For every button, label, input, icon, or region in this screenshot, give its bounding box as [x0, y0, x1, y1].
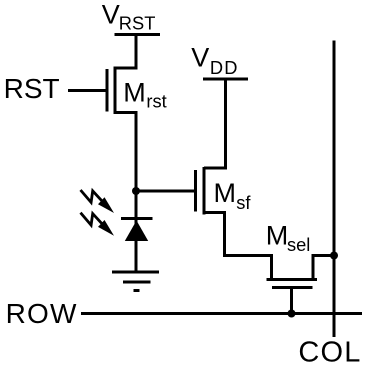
- svg-text:rst: rst: [146, 90, 166, 111]
- svg-text:sf: sf: [236, 192, 251, 213]
- svg-text:DD: DD: [210, 57, 239, 78]
- svg-text:RST: RST: [4, 73, 60, 104]
- svg-text:M: M: [266, 220, 289, 250]
- svg-text:V: V: [102, 0, 120, 30]
- svg-text:ROW: ROW: [6, 298, 78, 329]
- svg-text:RST: RST: [119, 13, 156, 34]
- svg-text:M: M: [123, 78, 146, 108]
- svg-text:M: M: [214, 178, 237, 208]
- svg-text:COL: COL: [298, 336, 361, 366]
- svg-text:sel: sel: [287, 234, 310, 255]
- svg-text:V: V: [191, 43, 209, 73]
